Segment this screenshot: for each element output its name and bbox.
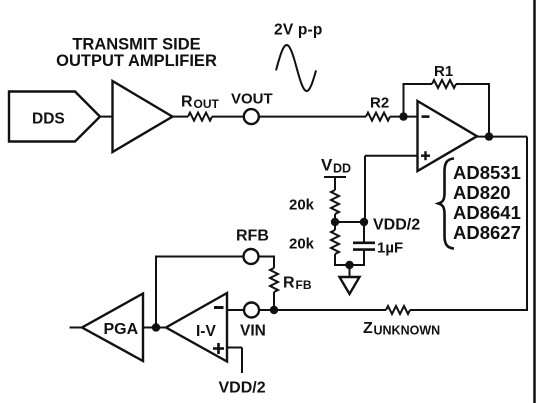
svg-text:PGA: PGA [104,321,139,338]
svg-text:TRANSMIT SIDE: TRANSMIT SIDE [72,36,200,54]
svg-text:VDD/2: VDD/2 [219,380,266,397]
svg-text:1µF: 1µF [377,240,403,257]
svg-text:VOUT: VOUT [231,91,273,108]
svg-text:R: R [283,275,295,292]
svg-text:Z: Z [363,320,373,337]
svg-text:OUTPUT AMPLIFIER: OUTPUT AMPLIFIER [56,52,217,70]
svg-text:OUT: OUT [194,97,220,111]
svg-text:DDS: DDS [32,111,65,128]
svg-text:R1: R1 [434,63,453,80]
svg-text:2V p-p: 2V p-p [274,22,323,39]
svg-text:FB: FB [296,278,312,292]
svg-text:RFB: RFB [236,228,269,245]
svg-text:AD820: AD820 [453,182,511,203]
svg-text:20k: 20k [289,197,315,214]
svg-text:AD8531: AD8531 [453,162,521,183]
svg-text:I-V: I-V [196,323,216,340]
svg-text:AD8641: AD8641 [453,202,521,223]
svg-text:UNKNOWN: UNKNOWN [374,324,441,338]
svg-text:V: V [321,156,333,175]
svg-text:AD8627: AD8627 [453,222,521,243]
svg-text:20k: 20k [289,236,315,253]
svg-text:R2: R2 [370,95,389,112]
svg-text:VDD/2: VDD/2 [373,217,420,234]
svg-text:DD: DD [333,162,351,176]
svg-text:VIN: VIN [240,323,266,340]
svg-text:R: R [181,94,193,111]
